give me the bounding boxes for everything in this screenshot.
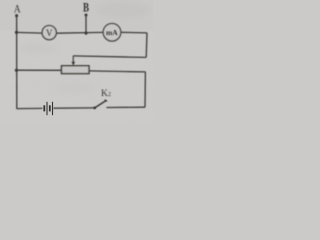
junction dot at A on top wire [15, 31, 18, 34]
svg-text:A: A [14, 2, 21, 16]
rheostat wiper arrowhead [72, 62, 76, 66]
rheostat wiper stem [72, 56, 74, 63]
rheostat R (slide resistor box) [62, 66, 90, 74]
wire: wiper horizontal line [73, 56, 146, 58]
wire: stem from terminal B down to top wire [85, 16, 87, 33]
voltmeter V1 circle [42, 25, 56, 39]
svg-text:B: B [83, 1, 89, 15]
switch K2 lever tip tick [105, 100, 108, 102]
junction dot at B on top wire [85, 32, 88, 35]
battery long plate 1 [46, 102, 48, 115]
wire: right lower rail down to bottom wire [144, 72, 146, 107]
terminal B (binding post dot) [85, 14, 88, 17]
battery pack (two cells) [44, 102, 52, 115]
wire: bottom right segment to switch [106, 106, 145, 108]
switch K2 pivot dot [93, 107, 96, 110]
battery short plate 1 [43, 105, 45, 111]
wire: top wire A-junction to voltmeter [16, 31, 42, 34]
wire: right upper rail down to wiper line [145, 33, 148, 58]
wire: row2 right (rheostat to right rail) [89, 71, 145, 72]
svg-text:K2: K2 [101, 89, 111, 99]
switch K2 lever [95, 100, 107, 108]
wire: voltmeter to milliammeter (through node B) [56, 31, 103, 34]
svg-text:V: V [46, 28, 53, 38]
svg-text:mA: mA [106, 28, 118, 37]
battery long plate 2 [52, 102, 54, 115]
wire: row2 left (left rail to rheostat) [16, 69, 61, 71]
junction dot left rail row2 [15, 69, 18, 72]
terminal A (binding post dot) [15, 14, 18, 17]
wire: milliammeter to top-right corner [121, 31, 147, 34]
wire: bottom middle segment battery to switch pivot [53, 107, 94, 109]
battery short plate 2 [49, 105, 51, 111]
paper background [0, 0, 153, 123]
wire: bottom left segment to battery [16, 107, 42, 109]
wire: left rail from terminal A down to bottom-left corner [16, 16, 18, 108]
milliammeter mA circle [103, 24, 121, 42]
